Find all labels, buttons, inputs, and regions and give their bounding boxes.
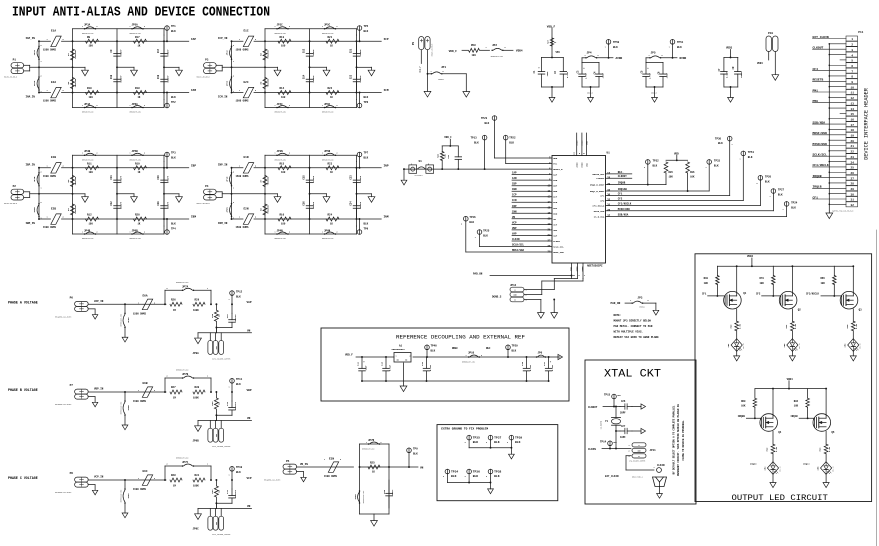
svg-text:TBD1206: TBD1206 (267, 176, 270, 185)
svg-text:VAP: VAP (512, 232, 517, 235)
svg-text:BLK: BLK (494, 475, 500, 478)
svg-text:1500 OHMS: 1500 OHMS (236, 49, 249, 52)
svg-text:12: 12 (851, 97, 855, 100)
svg-text:10UF: 10UF (365, 365, 368, 371)
svg-text:2: 2 (757, 183, 758, 185)
svg-text:C20: C20 (157, 201, 160, 206)
svg-text:E2B: E2B (51, 208, 56, 211)
svg-text:C24: C24 (350, 201, 353, 206)
svg-text:JP3C: JP3C (277, 24, 284, 27)
svg-text:33: 33 (607, 199, 611, 202)
svg-text:1: 1 (164, 35, 165, 37)
svg-text:1: 1 (411, 164, 412, 166)
svg-text:E2A: E2A (51, 81, 56, 84)
svg-text:4.7UF: 4.7UF (551, 364, 554, 371)
svg-text:A1: A1 (399, 345, 403, 348)
svg-text:100: 100 (472, 54, 477, 57)
svg-text:SMD041: SMD041 (438, 79, 444, 81)
svg-text:NOTE:: NOTE: (614, 314, 622, 317)
svg-text:R15: R15 (280, 162, 285, 165)
svg-text:1: 1 (732, 144, 733, 146)
svg-text:2: 2 (154, 302, 155, 304)
svg-text:4700PF: 4700PF (359, 175, 362, 183)
svg-text:TP35: TP35 (473, 437, 480, 440)
svg-text:PHASE B VOLTAGE: PHASE B VOLTAGE (8, 388, 38, 392)
svg-text:1: 1 (138, 302, 139, 304)
svg-text:32: 32 (851, 204, 855, 207)
svg-text:R18: R18 (135, 87, 140, 90)
svg-text:GRM40X7R-C02: GRM40X7R-C02 (275, 33, 287, 35)
svg-text:C10: C10 (110, 74, 113, 79)
svg-text:100: 100 (89, 222, 94, 225)
svg-text:Q1: Q1 (743, 292, 747, 295)
svg-text:TBD1206: TBD1206 (74, 176, 77, 185)
svg-text:1: 1 (654, 467, 655, 469)
svg-text:VN: VN (512, 216, 516, 219)
svg-text:1: 1 (207, 376, 208, 378)
svg-text:GRM40X7R-C02: GRM40X7R-C02 (82, 112, 94, 114)
svg-text:1: 1 (164, 161, 165, 163)
svg-text:JP6C: JP6C (324, 103, 331, 106)
svg-text:1.5K: 1.5K (775, 446, 778, 452)
svg-text:TP36: TP36 (473, 471, 480, 474)
svg-text:R27: R27 (171, 386, 176, 389)
svg-text:3: 3 (629, 456, 630, 458)
svg-text:INM: INM (384, 216, 389, 219)
svg-text:4700PF: 4700PF (359, 49, 362, 57)
svg-text:17: 17 (607, 172, 611, 175)
svg-text:VBP: VBP (512, 227, 517, 230)
svg-text:E1A: E1A (51, 30, 56, 33)
svg-text:JP5C: JP5C (324, 24, 331, 27)
svg-text:1: 1 (130, 105, 131, 107)
svg-text:JP9C: JP9C (193, 528, 200, 531)
svg-text:21: 21 (851, 145, 855, 148)
svg-text:INN: INN (553, 212, 558, 215)
svg-text:VAP: VAP (247, 301, 252, 304)
svg-text:R58: R58 (471, 44, 476, 47)
svg-text:1: 1 (41, 188, 42, 190)
svg-text:4.7UF: 4.7UF (584, 72, 587, 79)
svg-text:GRM40X7R-C02: GRM40X7R-C02 (130, 238, 142, 240)
svg-text:1.5K: 1.5K (828, 446, 831, 452)
svg-text:CF2: CF2 (756, 293, 761, 296)
svg-text:BER604137-C02: BER604137-C02 (120, 402, 122, 414)
svg-text:2: 2 (481, 355, 482, 357)
svg-text:E1B: E1B (51, 156, 56, 159)
svg-text:TP10: TP10 (236, 466, 243, 469)
svg-text:1: 1 (82, 232, 83, 234)
svg-text:EXT_CLKIN: EXT_CLKIN (605, 475, 619, 478)
svg-text:VN_IN: VN_IN (300, 463, 308, 466)
svg-text:1: 1 (584, 275, 585, 277)
svg-text:VCP: VCP (247, 477, 252, 480)
svg-text:E2N: E2N (244, 208, 249, 211)
svg-text:TP51: TP51 (748, 151, 755, 154)
svg-text:1500 OHMS: 1500 OHMS (236, 226, 249, 229)
svg-text:R14: R14 (280, 87, 285, 90)
svg-text:GRM40X7R-C02: GRM40X7R-C02 (82, 159, 94, 161)
svg-text:PHASE C VOLTAGE: PHASE C VOLTAGE (8, 476, 38, 480)
svg-text:25: 25 (573, 275, 575, 277)
svg-text:TP14: TP14 (600, 441, 607, 444)
svg-text:SMD041: SMD041 (639, 306, 645, 308)
svg-text:DGND_B: DGND_B (651, 93, 657, 95)
svg-text:VDD4: VDD4 (787, 378, 794, 381)
svg-text:CLKOUT: CLKOUT (813, 47, 824, 50)
svg-text:ICN: ICN (553, 201, 558, 204)
svg-text:BER604137-C02: BER604137-C02 (120, 314, 122, 326)
svg-text:2: 2 (144, 232, 145, 234)
svg-text:R69: R69 (741, 400, 746, 403)
svg-text:B: B (514, 300, 515, 302)
svg-text:18: 18 (851, 129, 855, 132)
svg-text:TP5: TP5 (364, 25, 369, 28)
svg-text:2: 2 (598, 55, 599, 57)
svg-text:AVDD: AVDD (576, 162, 579, 168)
svg-text:INM_IN: INM_IN (218, 222, 228, 225)
svg-text:TP26: TP26 (765, 175, 772, 178)
svg-text:R65: R65 (821, 277, 826, 280)
svg-text:VN: VN (247, 505, 251, 508)
svg-text:IRQ0_B_DRDY: IRQ0_B_DRDY (590, 184, 605, 187)
svg-text:2: 2 (233, 45, 234, 47)
svg-text:26: 26 (607, 209, 611, 212)
svg-text:P1: P1 (13, 59, 17, 62)
svg-text:1: 1 (229, 475, 230, 477)
svg-text:MELANED-141-0253: MELANED-141-0253 (55, 403, 71, 406)
svg-text:INP: INP (512, 205, 517, 208)
svg-text:U1: U1 (607, 152, 611, 155)
svg-text:JP2N: JP2N (226, 207, 229, 213)
svg-text:10K: 10K (741, 405, 746, 408)
svg-text:IAP: IAP (553, 174, 558, 177)
svg-text:100NF: 100NF (740, 71, 743, 78)
svg-text:IAM_IN: IAM_IN (26, 96, 36, 99)
svg-text:1: 1 (130, 232, 131, 234)
svg-text:1.5K: 1.5K (739, 323, 742, 329)
svg-text:1800PF: 1800PF (167, 201, 170, 209)
svg-text:JP8B: JP8B (127, 405, 130, 411)
svg-text:C27: C27 (621, 425, 626, 428)
svg-text:R10: R10 (87, 87, 92, 90)
svg-text:JP8A: JP8A (127, 317, 130, 323)
svg-text:MELANED-141-0253: MELANED-141-0253 (264, 479, 280, 482)
svg-text:XTAL CKT: XTAL CKT (604, 369, 661, 381)
svg-text:28: 28 (851, 183, 855, 186)
svg-text:JP8N: JP8N (354, 494, 357, 500)
svg-text:JP6A: JP6A (132, 103, 139, 106)
svg-text:JP4A: JP4A (84, 103, 91, 106)
svg-text:R32: R32 (211, 313, 214, 318)
svg-text:2: 2 (486, 442, 487, 444)
svg-text:S1: S1 (419, 160, 423, 163)
svg-text:1: 1 (138, 478, 139, 480)
svg-text:COM: COM (216, 434, 218, 437)
svg-text:1800PF: 1800PF (167, 75, 170, 83)
svg-text:29: 29 (607, 183, 611, 186)
svg-text:2: 2 (97, 232, 98, 234)
svg-text:BLK: BLK (451, 475, 457, 478)
svg-text:TP15: TP15 (604, 394, 611, 397)
svg-text:DVDD: DVDD (581, 162, 584, 168)
svg-text:2: 2 (255, 39, 256, 41)
svg-text:VDD4: VDD4 (757, 62, 763, 65)
svg-text:C14: C14 (226, 489, 229, 494)
svg-text:PM1: PM1 (553, 163, 558, 166)
svg-text:JP1N: JP1N (226, 176, 229, 182)
svg-text:JP4B: JP4B (84, 229, 91, 232)
svg-text:1: 1 (669, 47, 670, 49)
svg-text:BLK: BLK (765, 180, 770, 183)
svg-text:1: 1 (605, 47, 606, 49)
svg-text:4700PF: 4700PF (120, 49, 123, 57)
svg-text:MELANED-141-0253: MELANED-141-0253 (55, 315, 71, 318)
svg-text:TP24: TP24 (791, 202, 798, 205)
svg-text:4700PF: 4700PF (167, 49, 170, 57)
svg-text:COM: COM (513, 295, 516, 297)
svg-text:1500 OHMS: 1500 OHMS (133, 400, 146, 403)
svg-text:EXTRA GROUND TO FIX PROBLEM: EXTRA GROUND TO FIX PROBLEM (441, 427, 488, 430)
svg-text:R17: R17 (135, 36, 140, 39)
svg-text:VAP: VAP (553, 234, 558, 237)
svg-text:ADE7858CPZ: ADE7858CPZ (587, 265, 603, 268)
svg-text:TP40: TP40 (431, 345, 438, 348)
svg-text:C12: C12 (110, 201, 113, 206)
svg-text:P10: P10 (768, 32, 773, 35)
svg-text:2: 2 (144, 153, 145, 155)
svg-text:SS12SDP2: SS12SDP2 (415, 175, 423, 177)
svg-text:0.1UF: 0.1UF (388, 364, 391, 371)
svg-text:CLKIN: CLKIN (512, 238, 520, 241)
svg-text:R28: R28 (171, 474, 176, 477)
svg-text:BER604137-C02: BER604137-C02 (176, 458, 188, 460)
svg-text:2: 2 (648, 300, 649, 302)
svg-text:TP9: TP9 (364, 228, 369, 231)
svg-text:CLKIN: CLKIN (657, 464, 665, 467)
svg-text:2: 2 (167, 288, 168, 290)
svg-text:20: 20 (851, 140, 855, 143)
svg-text:GRM40X7R-C02: GRM40X7R-C02 (275, 159, 287, 161)
svg-text:CF3/HSCLK: CF3/HSCLK (618, 203, 632, 206)
svg-text:BER604137-C02: BER604137-C02 (363, 491, 365, 503)
svg-text:CLKOUT: CLKOUT (588, 406, 598, 409)
svg-text:TP33: TP33 (714, 159, 721, 162)
svg-text:BLK: BLK (653, 164, 658, 167)
svg-text:C44: C44 (356, 361, 359, 366)
svg-text:2: 2 (154, 478, 155, 480)
svg-text:100: 100 (89, 171, 94, 174)
svg-text:E6B: E6B (143, 382, 148, 385)
svg-text:IN: IN (397, 360, 399, 362)
svg-text:P2: P2 (13, 185, 17, 188)
svg-text:IRQ1B: IRQ1B (790, 415, 798, 418)
svg-text:TP22: TP22 (509, 137, 516, 140)
svg-text:AVDD: AVDD (616, 57, 623, 60)
svg-text:BLK: BLK (473, 475, 479, 478)
svg-text:ICP: ICP (553, 196, 558, 199)
svg-text:C11: C11 (110, 175, 113, 180)
svg-text:BLK: BLK (483, 235, 488, 238)
svg-text:BLK: BLK (515, 441, 521, 444)
svg-text:1: 1 (740, 159, 741, 161)
svg-text:1: 1 (770, 196, 771, 198)
svg-text:JP10: JP10 (468, 352, 475, 355)
svg-text:R16: R16 (280, 214, 285, 217)
svg-text:JP2A: JP2A (33, 80, 36, 86)
svg-text:R30: R30 (195, 386, 200, 389)
svg-text:C23: C23 (350, 175, 353, 180)
svg-text:JP1: JP1 (441, 66, 446, 69)
svg-text:P9: P9 (412, 42, 415, 46)
svg-text:1: 1 (356, 99, 357, 101)
svg-text:VDD_F: VDD_F (449, 50, 458, 53)
svg-text:P6: P6 (70, 296, 74, 299)
svg-text:1: 1 (324, 459, 325, 461)
svg-text:IBP_IN: IBP_IN (26, 164, 36, 167)
svg-text:R9: R9 (87, 36, 91, 39)
svg-text:23: 23 (851, 156, 855, 159)
svg-text:Q5: Q5 (831, 431, 835, 434)
svg-text:Q3: Q3 (859, 309, 863, 312)
svg-text:2: 2 (41, 172, 42, 174)
svg-text:2: 2 (97, 105, 98, 107)
svg-text:30: 30 (607, 194, 611, 197)
svg-text:Q4: Q4 (778, 431, 782, 434)
svg-text:IRQ1AB: IRQ1AB (618, 188, 628, 191)
svg-text:JP9A: JP9A (193, 352, 200, 355)
svg-text:20PF: 20PF (620, 412, 626, 415)
svg-text:IBP: IBP (512, 183, 517, 186)
svg-text:COM: COM (638, 450, 641, 452)
svg-text:GRM40X7R-C02: GRM40X7R-C02 (322, 33, 334, 35)
svg-text:2: 2 (144, 26, 145, 28)
svg-text:22: 22 (851, 151, 855, 154)
svg-text:1: 1 (207, 464, 208, 466)
svg-text:1: 1 (322, 153, 323, 155)
svg-text:JP8C: JP8C (127, 493, 130, 499)
svg-text:JP9B: JP9B (193, 440, 200, 443)
svg-text:TP12: TP12 (236, 290, 243, 293)
svg-text:C13: C13 (303, 48, 306, 53)
svg-text:CLKOUT: CLKOUT (618, 175, 628, 178)
svg-text:VBP_IN: VBP_IN (94, 388, 104, 391)
svg-text:1800PF: 1800PF (359, 201, 362, 209)
svg-text:1: 1 (706, 167, 707, 169)
svg-text:TBD1206: TBD1206 (267, 78, 270, 87)
svg-text:BLK: BLK (236, 383, 241, 386)
svg-text:VDD_F: VDD_F (444, 136, 452, 139)
svg-text:C16: C16 (303, 201, 306, 206)
svg-text:RREF: RREF (452, 347, 459, 350)
svg-text:14: 14 (851, 108, 855, 111)
svg-text:BLK: BLK (512, 350, 517, 353)
svg-text:2: 2 (233, 76, 234, 78)
svg-text:2: 2 (465, 442, 466, 444)
svg-text:PM0: PM0 (813, 100, 819, 103)
svg-text:2: 2 (461, 224, 462, 226)
svg-text:BLK: BLK (171, 222, 176, 225)
svg-text:VDD3: VDD3 (726, 47, 733, 50)
svg-text:BLK: BLK (171, 30, 176, 33)
svg-text:2: 2 (41, 202, 42, 204)
svg-text:IAP_IN: IAP_IN (26, 37, 36, 40)
svg-text:2: 2 (41, 45, 42, 47)
svg-text:P3: P3 (205, 59, 209, 62)
svg-text:1500 OHMS: 1500 OHMS (43, 49, 56, 52)
svg-text:1: 1 (130, 26, 131, 28)
svg-text:100: 100 (89, 96, 94, 99)
svg-text:REF: REF (486, 347, 491, 350)
svg-text:R29: R29 (195, 298, 200, 301)
svg-text:DVDD: DVDD (680, 57, 687, 60)
svg-text:2: 2 (381, 442, 382, 444)
svg-text:TP25: TP25 (483, 230, 490, 233)
svg-text:24: 24 (851, 161, 855, 164)
svg-text:10000PF: 10000PF (234, 313, 237, 322)
svg-text:VDD_F: VDD_F (345, 354, 353, 357)
svg-text:IBM_IN: IBM_IN (26, 222, 36, 225)
svg-text:IBP: IBP (191, 165, 196, 168)
svg-text:GRM40X7R-C02: GRM40X7R-C02 (275, 238, 287, 240)
svg-text:1800PF: 1800PF (359, 75, 362, 83)
svg-text:10000PF: 10000PF (234, 489, 237, 498)
svg-text:2: 2 (662, 55, 663, 57)
svg-text:TP2: TP2 (171, 101, 176, 104)
svg-text:VDD4: VDD4 (747, 255, 754, 258)
svg-text:1500 OHMS: 1500 OHMS (133, 312, 146, 315)
svg-text:BLK: BLK (171, 96, 176, 99)
svg-text:BLK: BLK (236, 471, 241, 474)
svg-text:E1N: E1N (244, 156, 249, 159)
svg-text:VDD_F: VDD_F (547, 25, 556, 28)
svg-text:1: 1 (233, 61, 234, 63)
svg-text:1: 1 (275, 105, 276, 107)
svg-text:2: 2 (337, 232, 338, 234)
svg-text:1500 OHMS: 1500 OHMS (324, 475, 337, 478)
svg-text:1: 1 (82, 105, 83, 107)
svg-text:JP6N: JP6N (324, 229, 331, 232)
svg-text:BLK: BLK (364, 96, 369, 99)
svg-text:OUTPUT LED CIRCUIT: OUTPUT LED CIRCUIT (732, 493, 828, 503)
svg-text:BLK: BLK (236, 295, 241, 298)
svg-text:JP5B: JP5B (132, 150, 139, 153)
svg-text:SCTX_SOLDER_JUMPER: SCTX_SOLDER_JUMPER (212, 534, 230, 536)
svg-text:R84: R84 (794, 400, 799, 403)
svg-text:E6C: E6C (143, 470, 148, 473)
svg-text:JP7B: JP7B (182, 373, 189, 376)
svg-text:10K: 10K (821, 282, 826, 285)
svg-text:1: 1 (649, 55, 650, 57)
svg-text:DEVICE INTERFACE HEADER: DEVICE INTERFACE HEADER (864, 88, 870, 160)
svg-text:VCP: VCP (512, 221, 517, 224)
svg-text:JP6: JP6 (538, 352, 543, 355)
svg-text:BY DEFAULT SELECT OPTION A TO: BY DEFAULT SELECT OPTION A TO COMPLETE P… (672, 405, 675, 474)
svg-text:JP4C: JP4C (277, 103, 284, 106)
svg-text:CF1: CF1 (600, 195, 605, 198)
svg-text:2: 2 (289, 232, 290, 234)
svg-text:E2C: E2C (244, 81, 249, 84)
svg-text:JP2: JP2 (492, 44, 497, 47)
svg-text:INP: INP (384, 165, 389, 168)
svg-text:SAMTEC-TSW-116-08-G-D: SAMTEC-TSW-116-08-G-D (832, 210, 853, 213)
svg-text:BLK: BLK (509, 142, 514, 145)
svg-text:1500 OHMS: 1500 OHMS (236, 175, 249, 178)
svg-text:2: 2 (644, 167, 645, 169)
svg-text:REF.: REF. (618, 171, 624, 174)
svg-text:BER604137-C02: BER604137-C02 (176, 370, 188, 372)
svg-text:10K: 10K (690, 175, 695, 178)
